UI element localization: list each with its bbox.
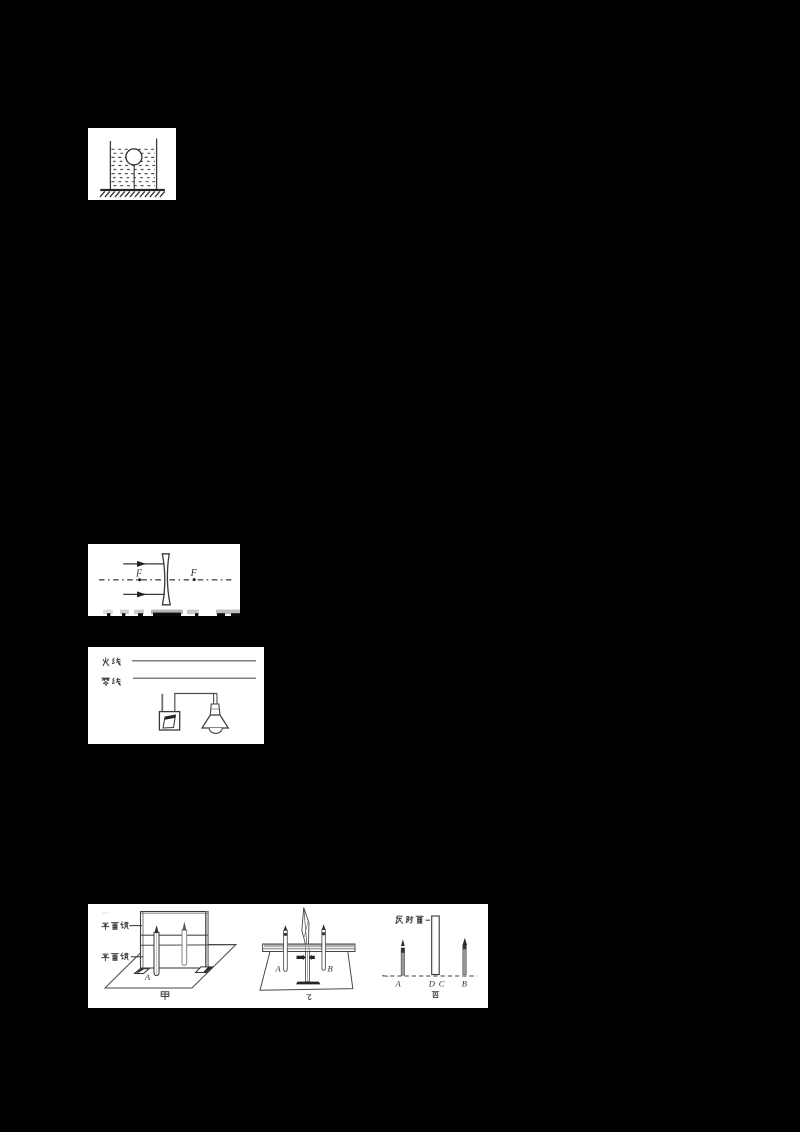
lamp cord (213, 694, 215, 705)
faint scan remnant top-left (102, 912, 109, 913)
principal axis (99, 579, 234, 581)
svg-text:B: B (328, 964, 333, 974)
live wire line (132, 660, 256, 662)
svg-text:A: A (275, 964, 282, 974)
concave lens (162, 554, 170, 605)
JIA: image pencil (behind glass) (182, 930, 187, 965)
BING: pencil B (463, 945, 466, 975)
YI: glass plate edge-on (lower strip) (306, 952, 310, 982)
BING: mirror block (432, 916, 440, 975)
svg-text:A: A (395, 979, 402, 989)
YI: caption (307, 995, 311, 1000)
JIA: mirror strip lines (141, 934, 209, 936)
arrowhead (bottom ray) (137, 591, 146, 597)
BING: pencil A (401, 948, 404, 975)
svg-text:A: A (144, 972, 151, 982)
svg-text:F: F (135, 569, 143, 580)
JIA: right foot (196, 967, 214, 973)
JIA: glass plate (141, 912, 209, 969)
switch box (159, 712, 179, 730)
JIA: object pencil (154, 933, 159, 976)
ball (126, 149, 142, 165)
BING: label fanshemian (reflecting surface) (396, 916, 423, 923)
svg-text:D: D (428, 979, 436, 989)
BING: dashed base line (383, 975, 477, 977)
JIA: paper sheet (105, 945, 236, 989)
beaker left wall (109, 141, 111, 190)
YI: glass plate crossing ruler (304, 944, 306, 952)
incident ray (bottom) (123, 593, 165, 595)
label lingxian (neutral wire) (102, 678, 120, 686)
svg-text:F: F (190, 568, 198, 579)
beaker right wall (156, 139, 158, 190)
YI: ruler (263, 944, 355, 952)
bulb (209, 728, 222, 733)
cropped text remnants along bottom edge (103, 610, 240, 616)
lamp shade (202, 715, 228, 728)
arrowhead (top ray) (137, 561, 146, 567)
ground hatching (100, 191, 165, 197)
BING: caption (432, 992, 439, 998)
ground line (100, 189, 165, 191)
switch toggle (163, 715, 176, 728)
YI: glass plate edge-on (upper leaf) (302, 908, 309, 945)
YI: clamp arms (297, 955, 306, 961)
JIA: caption (161, 992, 169, 1000)
JIA: label pingmianjing (lower) (102, 953, 128, 961)
stray dots (382, 975, 384, 977)
YI: base foot (296, 982, 321, 985)
wire switch to lamp (175, 694, 217, 712)
JIA: left foot (135, 969, 150, 974)
lamp holder (neck) (210, 704, 220, 715)
string (133, 165, 135, 189)
label huoxian (live wire) (103, 658, 120, 666)
svg-text:B: B (462, 979, 467, 989)
JIA: label pingmianjing (upper) (102, 922, 128, 930)
YI: paper sheet (260, 951, 353, 991)
YI: pencil B (322, 930, 326, 971)
water (dashed shading rows) (112, 149, 156, 185)
neutral wire line (133, 677, 256, 679)
incident ray (top) (123, 563, 164, 565)
wire from live to switch (161, 694, 163, 714)
YI: pencil A (284, 930, 288, 971)
svg-text:C: C (439, 979, 445, 989)
